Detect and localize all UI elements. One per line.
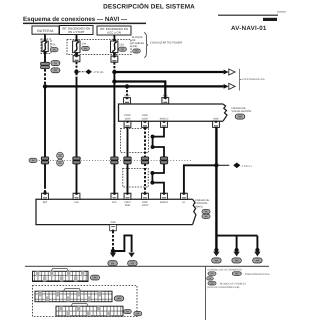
battery source box xyxy=(32,26,59,34)
connector view grid 2 xyxy=(35,289,112,302)
junction node W3/busB xyxy=(112,79,116,83)
wire ignition to fuse F2 xyxy=(76,35,78,42)
svg-text:IGN: IGN xyxy=(74,201,78,204)
junction node gnd1 xyxy=(214,248,218,252)
svg-text:CONT: CONT xyxy=(124,201,131,204)
svg-text:15A: 15A xyxy=(119,43,124,46)
brace xyxy=(144,33,148,58)
pin CONT DISP xyxy=(124,121,131,127)
page tab mark xyxy=(263,18,277,21)
ground M1 oval xyxy=(108,261,117,266)
footer divider xyxy=(25,266,269,267)
svg-text:: CONEXIÓN MÚLTIPLE: : CONEXIÓN MÚLTIPLE xyxy=(244,272,271,276)
wire ACC to fuse F3 xyxy=(113,35,115,41)
svg-text:BATERIA: BATERIA xyxy=(37,29,54,33)
svg-text:10A: 10A xyxy=(82,43,87,46)
junction node ILL branch xyxy=(214,163,218,167)
grid 3 ref ovals xyxy=(124,310,132,314)
svg-text:CONT: CONT xyxy=(142,118,149,121)
navi pin labels xyxy=(43,201,186,207)
wire W3 below fuse xyxy=(113,53,115,56)
svg-text:: BLOQUE DE FUSIBLES: : BLOQUE DE FUSIBLES xyxy=(219,283,247,286)
ground M2 oval xyxy=(128,261,137,266)
svg-text:DISP: DISP xyxy=(142,201,148,204)
label fuse block J/B xyxy=(132,36,144,48)
svg-text:BAT: BAT xyxy=(43,201,48,204)
pin GND xyxy=(213,121,220,127)
terminal 2 on fuse block xyxy=(73,56,80,62)
svg-text:(NAVI): (NAVI) xyxy=(195,206,203,209)
ground E3 oval xyxy=(253,258,262,263)
junction node gnd3 xyxy=(255,248,259,252)
connector on W4 xyxy=(124,157,131,164)
pin DISP CONT in xyxy=(142,193,149,199)
display unit box xyxy=(119,104,228,121)
svg-text:(J/B): (J/B) xyxy=(132,45,137,48)
pointer A TID M/L xyxy=(79,69,105,74)
harness dashed box xyxy=(33,286,138,317)
pointer A TID ILL xyxy=(219,163,253,169)
bus C (battery feed) xyxy=(45,85,224,87)
connector on W2 xyxy=(73,157,80,164)
svg-text:DISP: DISP xyxy=(125,118,131,121)
connector view grid 3 xyxy=(56,304,123,317)
svg-text:ON o START: ON o START xyxy=(68,30,85,34)
GND pin bottom xyxy=(110,225,117,231)
fuse block ref oval xyxy=(133,49,141,53)
fuse F2 10A xyxy=(73,39,87,54)
ground E3 xyxy=(254,252,260,257)
grid 1 ref oval xyxy=(91,275,100,280)
display GND ground branches xyxy=(216,235,257,237)
pin BAT xyxy=(42,193,49,199)
harness boundary dotted line xyxy=(36,159,192,161)
W1 ref ovals xyxy=(51,61,60,66)
fuse block dashed box F1 xyxy=(41,39,51,54)
svg-text:ACC o ON: ACC o ON xyxy=(107,31,121,35)
pin REC xyxy=(162,98,169,104)
connector on W5 xyxy=(141,157,148,164)
svg-text:GND: GND xyxy=(213,118,219,121)
svg-text:DESCRIPCIÓN DEL SISTEMA: DESCRIPCIÓN DEL SISTEMA xyxy=(103,3,195,11)
svg-text:Esquema de conexiones — NAVI —: Esquema de conexiones — NAVI — xyxy=(23,16,128,23)
shield drain lower xyxy=(152,164,164,193)
legend column rule xyxy=(204,266,207,320)
grid 2 ref oval xyxy=(114,296,123,301)
fuse block J/B dashed box xyxy=(67,40,131,55)
svg-text:AV-NAVI-01: AV-NAVI-01 xyxy=(231,25,267,32)
grid reference symbol xyxy=(57,152,64,166)
ground M2 xyxy=(128,253,134,258)
ignition ACC/ON source box xyxy=(97,26,131,35)
svg-text:ACC: ACC xyxy=(112,201,117,204)
fuse F3 ref oval xyxy=(119,47,127,51)
wire W1 below fuse xyxy=(44,53,46,63)
navi GND wire dashed xyxy=(112,231,114,249)
pin ACC xyxy=(111,193,118,199)
ground E2 oval xyxy=(232,258,241,263)
navi ground branch xyxy=(113,235,132,252)
arrow B xyxy=(224,83,235,89)
pin SHIELD in xyxy=(161,193,168,199)
svg-text:CONSULTAR TID-POWER: CONSULTAR TID-POWER xyxy=(150,41,182,44)
svg-text:A TID M/L: A TID M/L xyxy=(93,71,105,74)
svg-text:(CAJA DE CONEXIONES J/B): (CAJA DE CONEXIONES J/B) xyxy=(207,286,239,289)
pin DISP CONT xyxy=(142,121,149,127)
wire W2 down xyxy=(76,73,78,79)
drop to DISP pin xyxy=(126,86,128,97)
connector plug on W1 xyxy=(41,62,50,68)
pin DISP xyxy=(124,98,131,104)
ground M1 xyxy=(110,253,116,258)
wire battery to fuse F1 xyxy=(44,34,46,40)
bus A (ACC feed) xyxy=(114,71,223,73)
pin ILL in xyxy=(181,193,188,199)
junction node W1/busC xyxy=(43,84,47,88)
wire W4 lower xyxy=(127,164,129,193)
svg-text:SHIELD: SHIELD xyxy=(160,201,169,204)
svg-text:VISUALIZACIÓN: VISUALIZACIÓN xyxy=(232,109,252,113)
shield dashed box lower xyxy=(123,168,148,187)
title Esquema de conexiones NAVI xyxy=(23,16,146,24)
arrow A xyxy=(224,69,235,75)
svg-text:A TID-ILL: A TID-ILL xyxy=(242,165,253,168)
wire W2 dashed xyxy=(76,62,78,70)
GND wire from display unit xyxy=(215,128,217,251)
connector view grid 1 xyxy=(33,269,89,282)
svg-text:CONT: CONT xyxy=(142,204,149,207)
junction node W2 xyxy=(74,70,78,74)
junction node W3/busA xyxy=(112,70,116,74)
fuse F1 7.5A xyxy=(42,39,56,53)
ignition ON/START source box xyxy=(60,26,94,35)
wire W5 DISP CONT dashed xyxy=(144,128,146,158)
svg-text:DISP: DISP xyxy=(125,204,131,207)
header DESCRIPCION DEL SISTEMA xyxy=(103,3,195,11)
page rule top right xyxy=(218,15,278,16)
arrows bracket + note xyxy=(240,69,265,91)
wire W2 below fuse xyxy=(76,53,78,56)
connector on shield drain xyxy=(160,157,167,164)
doc number xyxy=(277,11,286,13)
junction node gnd2 xyxy=(235,248,239,252)
wire W1 dashed segment xyxy=(44,69,46,85)
pin CONT DISP in xyxy=(124,193,131,199)
junction node busC/DISP xyxy=(125,84,129,88)
harness ref oval left xyxy=(29,158,37,162)
pin SHIELD xyxy=(161,121,168,127)
display unit label xyxy=(232,107,252,119)
svg-text:GND: GND xyxy=(110,221,115,224)
fuse F3 15A xyxy=(111,39,125,54)
ground E1 oval xyxy=(212,258,221,263)
svg-text:A SISTEMA DE A/A: A SISTEMA DE A/A xyxy=(242,78,265,81)
wire W5 lower dashed xyxy=(144,164,146,193)
shield dashed box upper xyxy=(121,128,149,152)
navi unit label xyxy=(195,199,210,219)
ground E2 xyxy=(233,252,239,257)
wire W3 down xyxy=(113,72,115,193)
legend xyxy=(207,269,270,290)
wire W3 dashed xyxy=(113,62,115,70)
fuse F1 ref oval xyxy=(50,48,58,52)
connector on W3 xyxy=(111,157,118,164)
connector on W1 xyxy=(41,157,48,164)
junction node navi GND xyxy=(111,249,115,253)
svg-text:7.5A: 7.5A xyxy=(50,44,55,47)
shield drain upper xyxy=(153,128,164,158)
pin CONT DISP labels xyxy=(124,114,219,120)
fuse F2 ref oval xyxy=(82,46,90,50)
ground E1 xyxy=(213,252,219,257)
ILL wire xyxy=(184,165,217,193)
navi control unit box xyxy=(36,199,196,224)
terminal 3 on fuse block xyxy=(111,56,118,62)
wire W1 down xyxy=(44,86,46,186)
wire W4 CONT DISP xyxy=(127,128,129,158)
svg-text:CUADRILLAJE DE SEGMENTO: CUADRILLAJE DE SEGMENTO xyxy=(208,269,243,272)
pin IGN xyxy=(73,193,80,199)
svg-text:SHIELD: SHIELD xyxy=(160,118,169,121)
bus B to REC pin xyxy=(114,82,165,98)
